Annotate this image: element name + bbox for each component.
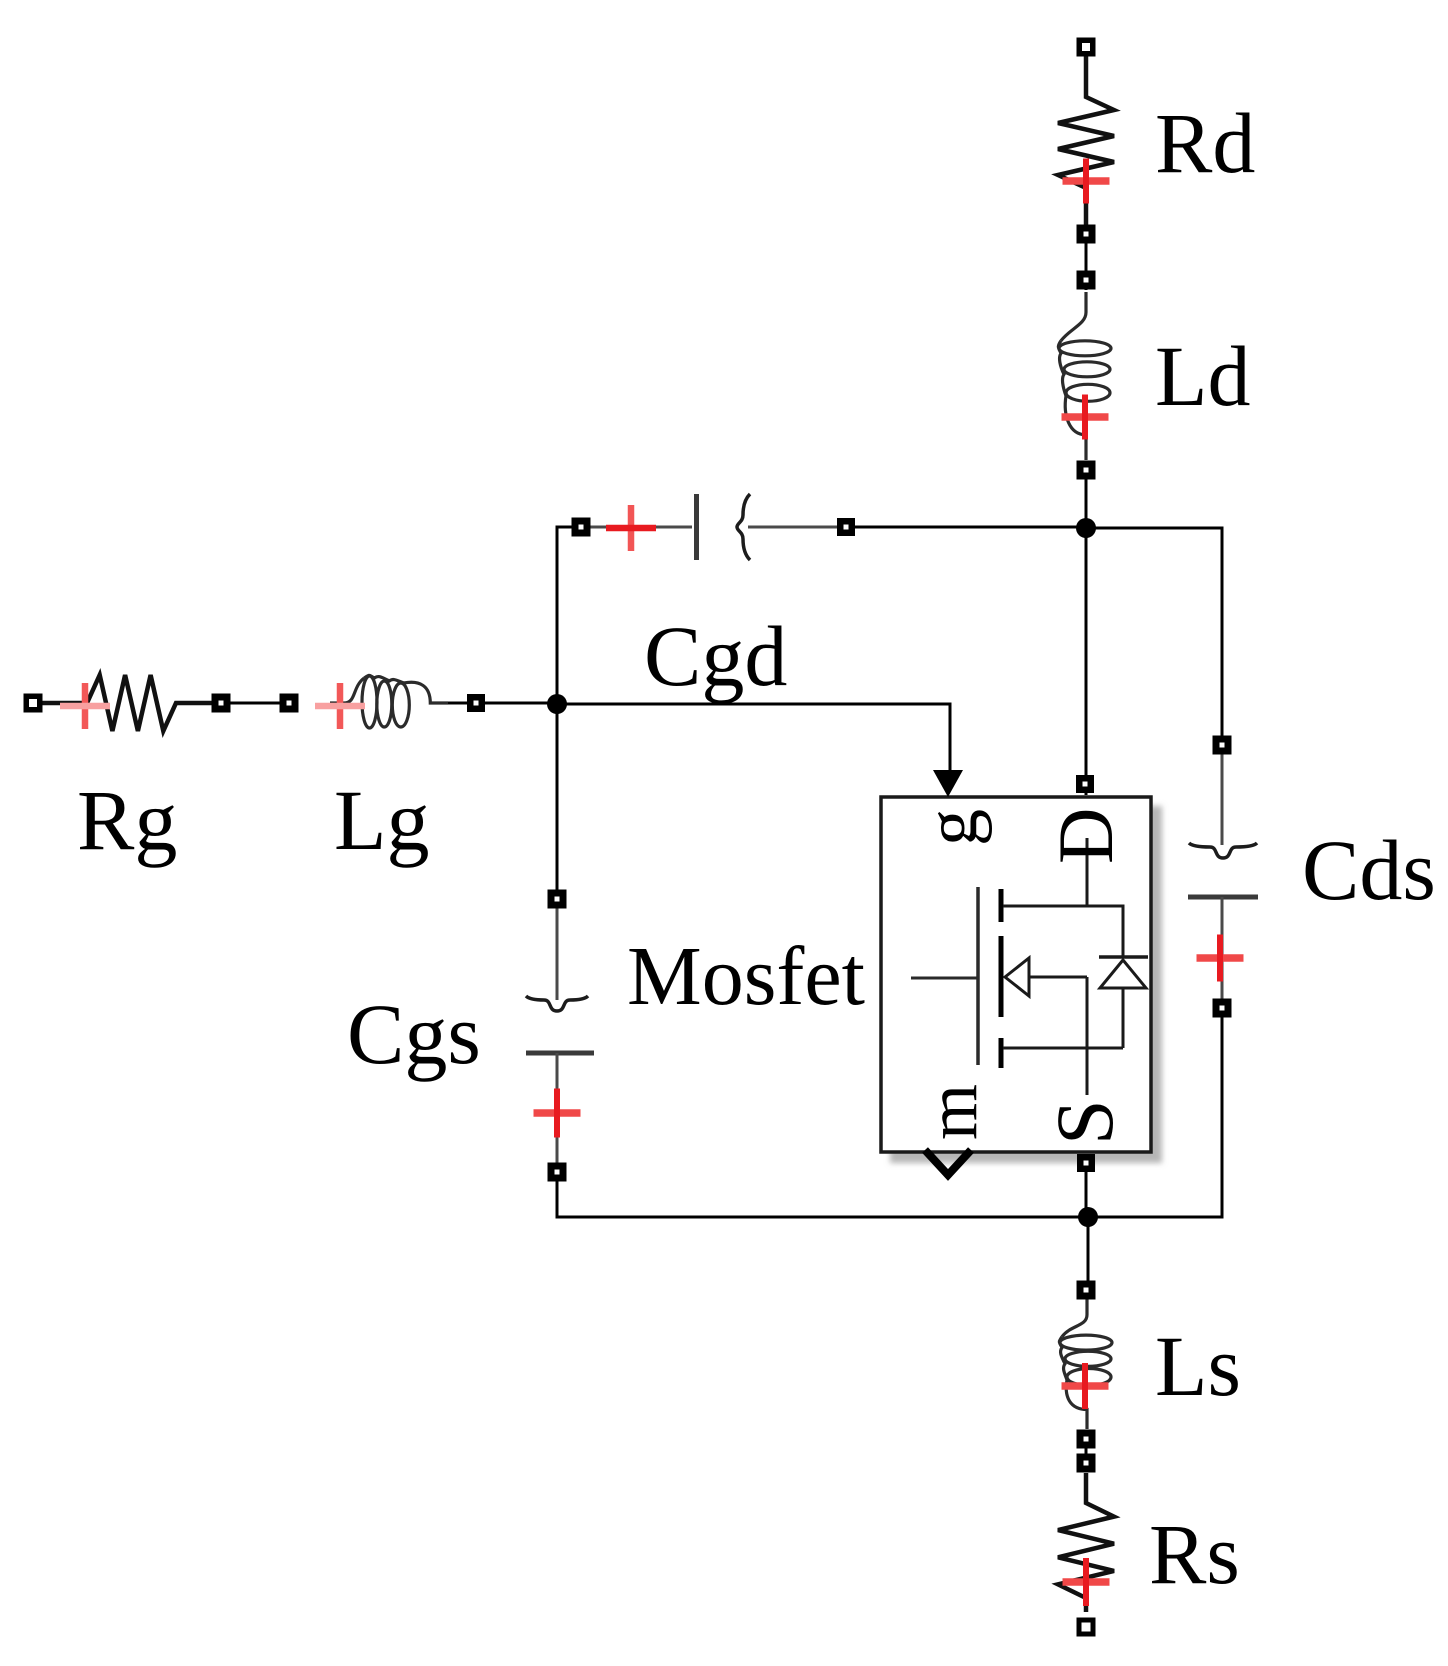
wire: between mid terminals (221, 702, 289, 705)
terminal square: Rd bottom (1077, 225, 1096, 244)
terminal square: Cgs bottom (548, 1163, 567, 1182)
red plus of Cgs (534, 1109, 581, 1117)
wire: Rd top terminal to resistor (1085, 47, 1088, 90)
svg-text:Cgs: Cgs (347, 986, 481, 1082)
svg-text:Ls: Ls (1155, 1318, 1241, 1414)
svg-text:Lg: Lg (334, 772, 430, 868)
node: gate junction (547, 694, 567, 714)
terminal square: Cgs top (548, 890, 567, 909)
mosfet U1 m output arrow (925, 1150, 971, 1175)
terminal square: Ld bottom (1077, 461, 1096, 480)
svg-text:g: g (911, 809, 993, 846)
inductor Lg (330, 675, 448, 728)
resistor Rs (1058, 1473, 1114, 1612)
terminal square: Mosfet D port (1076, 775, 1094, 793)
node: source junction (1078, 1207, 1098, 1227)
svg-text:Rg: Rg (77, 772, 177, 868)
wire: Ls bottom to Rs top (1085, 1439, 1088, 1463)
terminal square: Lg right (467, 694, 485, 712)
mosfet U1 internal: body diode (1099, 955, 1148, 959)
wire: Cgd right plate to node D (846, 526, 1086, 529)
mosfet U1 internal: drain connection (1003, 906, 1123, 957)
resistor Rg (42, 675, 212, 731)
svg-text:m: m (912, 1084, 992, 1140)
red plus of Ld (1062, 413, 1109, 421)
svg-text:Mosfet: Mosfet (627, 930, 865, 1023)
inductor Ld (1058, 292, 1111, 460)
capacitor Cgs (526, 908, 594, 1165)
capacitor Cgd (590, 494, 840, 560)
terminal square: Mosfet S port (1077, 1154, 1095, 1172)
terminal square: Rs bottom (output) (1077, 1618, 1096, 1637)
svg-text:Ld: Ld (1155, 328, 1251, 424)
red plus of Rd (1063, 177, 1110, 185)
terminal square: Cgd left (572, 518, 591, 537)
mosfet U1 internal: channel segments (999, 889, 1004, 922)
red plus of Ls (1062, 1382, 1109, 1390)
wire: source node down to Ls (1087, 1217, 1090, 1290)
terminal square: input left (24, 694, 43, 713)
mosfet U1 internal: body line with arrow (1030, 976, 1087, 979)
red plus of Cgd (628, 505, 635, 551)
red plus of Rg (82, 683, 89, 729)
wire: bottom rail right segment to Cds bottom (1088, 1008, 1222, 1217)
svg-text:Cgd: Cgd (644, 608, 787, 704)
wire: Rd bottom to Ld top (between terminal squares) (1085, 190, 1088, 290)
svg-text:Rs: Rs (1149, 1506, 1240, 1602)
svg-text:D: D (1042, 808, 1129, 864)
resistor Rd (1058, 56, 1114, 225)
wire: gate node to g port arrow (557, 704, 950, 772)
svg-text:Cds: Cds (1302, 822, 1436, 918)
wire: Mosfet S port to source node (1085, 1163, 1088, 1217)
terminal square: Cds bottom (1213, 999, 1232, 1018)
wire: node D down to Mosfet D port (1085, 528, 1088, 795)
terminal square: Ld top (1077, 271, 1096, 290)
inductor Ls (1059, 1299, 1112, 1429)
svg-text:S: S (1039, 1099, 1130, 1145)
wire: Cgd left square to gate node corner (557, 527, 581, 704)
svg-text:Rd: Rd (1155, 95, 1255, 191)
mosfet block U1 body (881, 797, 1151, 1152)
mosfet U1 internal: gate bar (976, 887, 980, 1065)
mosfet U1 g input arrow (933, 770, 963, 797)
terminal square: Cgd right (837, 518, 855, 536)
terminal square: Ls top (1077, 1281, 1096, 1300)
wire: Cgs bottom to bottom rail (557, 1172, 1088, 1217)
wire: Rg to first mid terminal (176, 702, 221, 705)
mosfet U1 internal: source bottom connection (1003, 1047, 1123, 1050)
mosfet U1 internal: gate lead (911, 977, 978, 980)
wire: left input terminal to Rg (33, 702, 60, 705)
wire: node D right then down to Cds top (1086, 528, 1222, 745)
red plus of Cds (1197, 954, 1244, 962)
wire: gate node down to Cgs top (556, 704, 559, 899)
terminal square: Lg left (280, 694, 299, 713)
capacitor Cds (1188, 754, 1258, 1002)
wire: Ld bottom to junction node D (1085, 461, 1088, 538)
terminal square: Rd top (input) (1077, 38, 1096, 57)
red plus of Lg (337, 683, 344, 729)
red plus of Rs (1063, 1578, 1110, 1586)
mosfet U1 internal: drain stem from D label (1086, 838, 1089, 906)
wire: Lg to gate node (448, 702, 557, 705)
mosfet U1 internal: source stem (1086, 977, 1089, 1095)
terminal square: Rs top (1077, 1454, 1096, 1473)
terminal square: Cds top (1213, 736, 1232, 755)
terminal square: Ls bottom (1077, 1430, 1096, 1449)
mosfet block U1 shadow (890, 806, 1162, 1163)
terminal square: Rg right (212, 694, 231, 713)
node: drain junction (1076, 518, 1096, 538)
